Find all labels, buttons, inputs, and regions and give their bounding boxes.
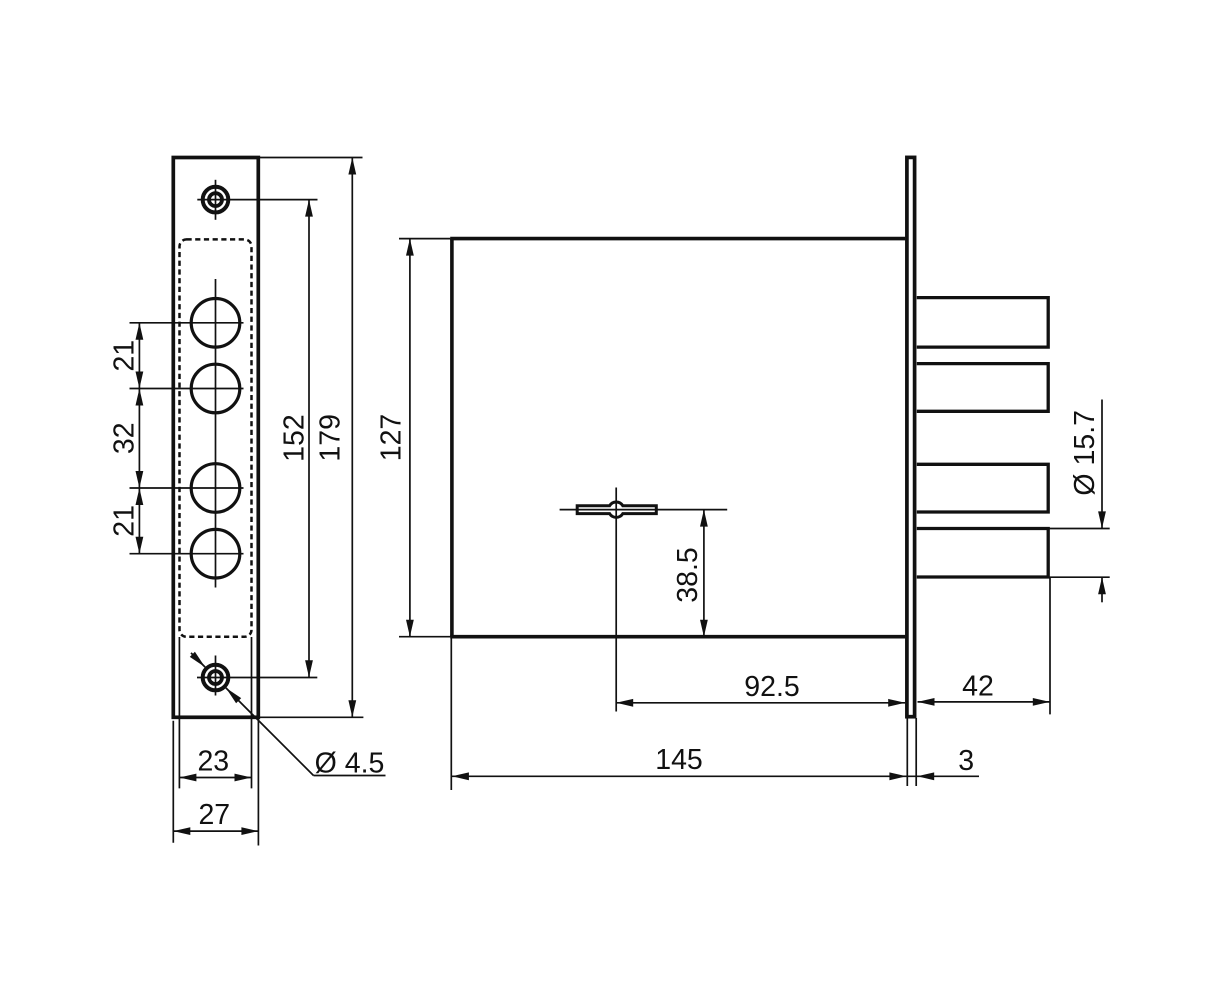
dimension line 38.5 — [703, 510, 705, 637]
svg-text:127: 127 — [376, 414, 408, 462]
keyhole horizontal center line — [560, 509, 728, 511]
center line bottom screw hole — [215, 656, 217, 696]
extension line bolt hole 1 center — [130, 322, 244, 324]
leader line diameter 4.5 lower segment — [226, 688, 314, 776]
svg-text:Ø 4.5: Ø 4.5 — [315, 748, 385, 780]
svg-text:32: 32 — [108, 422, 140, 454]
extension line 27 right — [257, 719, 259, 846]
extension line top screw center — [197, 199, 317, 201]
extension line 127 top — [399, 238, 450, 240]
center line of bolt holes — [215, 279, 217, 588]
svg-text:145: 145 — [655, 744, 703, 776]
keyhole slot — [577, 502, 656, 517]
dimension line diameter 15.7 lower — [1101, 577, 1103, 602]
extension line 27 left — [172, 721, 174, 843]
extension line diameter 15.7 top — [1049, 528, 1110, 530]
bolt 3 side view — [917, 464, 1048, 512]
faceplate front view outline — [173, 158, 258, 718]
keyhole vertical center line — [615, 488, 617, 712]
dimension line 145 and 3 — [452, 775, 979, 777]
center line top screw hole — [215, 180, 217, 220]
bottom screw hole — [203, 665, 229, 691]
svg-text:92.5: 92.5 — [744, 671, 799, 703]
extension line bolt hole 2 center — [130, 388, 244, 390]
extension line faceplate top — [258, 157, 362, 159]
bolt hole 4 — [191, 529, 240, 578]
leader line diameter 4.5 upper segment — [191, 653, 205, 667]
extension line 23 right — [251, 637, 253, 788]
extension line bolt hole 3 center — [130, 487, 244, 489]
svg-text:21: 21 — [108, 505, 140, 537]
dimension line 179 — [351, 158, 353, 718]
extension line 42 right — [1049, 578, 1051, 714]
extension line 127 bottom — [399, 636, 450, 638]
svg-text:42: 42 — [962, 671, 994, 703]
dimension line 27 — [173, 830, 258, 832]
dashed lock-case outline behind faceplate — [180, 239, 252, 636]
extension line 3 left — [906, 718, 908, 786]
svg-text:27: 27 — [198, 799, 230, 831]
dimension line 152 — [308, 200, 310, 678]
svg-text:Ø 15.7: Ø 15.7 — [1069, 410, 1101, 496]
extension line 23 left — [178, 637, 180, 788]
svg-text:23: 23 — [197, 746, 229, 778]
leader underline diameter 4.5 — [314, 775, 386, 777]
bolt 2 side view — [917, 364, 1048, 412]
extension line faceplate bottom — [260, 716, 363, 718]
svg-text:152: 152 — [278, 414, 310, 462]
svg-text:179: 179 — [315, 414, 347, 462]
dimension line 127 — [409, 239, 411, 637]
svg-text:21: 21 — [108, 340, 140, 372]
lock body left edge — [450, 239, 454, 637]
dimension line 23 — [179, 777, 251, 779]
faceplate side view bar — [907, 157, 915, 716]
dimension line 42 — [918, 701, 1051, 703]
bolt hole 3 — [191, 464, 240, 513]
dimension line 92.5 — [616, 702, 905, 704]
dimension line diameter 15.7 upper — [1101, 400, 1103, 529]
top screw hole — [203, 187, 229, 213]
lock body bottom edge — [450, 635, 905, 639]
extension line bolt hole 4 center — [130, 553, 244, 555]
extension line bottom screw center — [197, 677, 317, 679]
lock body top edge — [450, 237, 905, 241]
svg-text:3: 3 — [958, 745, 974, 777]
extension line 3 right — [915, 718, 917, 786]
bolt 4 side view — [917, 529, 1048, 578]
bolt hole 2 — [191, 364, 240, 413]
extension line 145 left — [450, 638, 452, 790]
bolt 1 side view — [917, 298, 1048, 348]
svg-text:38.5: 38.5 — [672, 547, 704, 602]
dimension line 21/32/21 — [138, 323, 140, 554]
bolt hole 1 — [191, 299, 240, 348]
extension line diameter 15.7 bottom — [1049, 576, 1110, 578]
